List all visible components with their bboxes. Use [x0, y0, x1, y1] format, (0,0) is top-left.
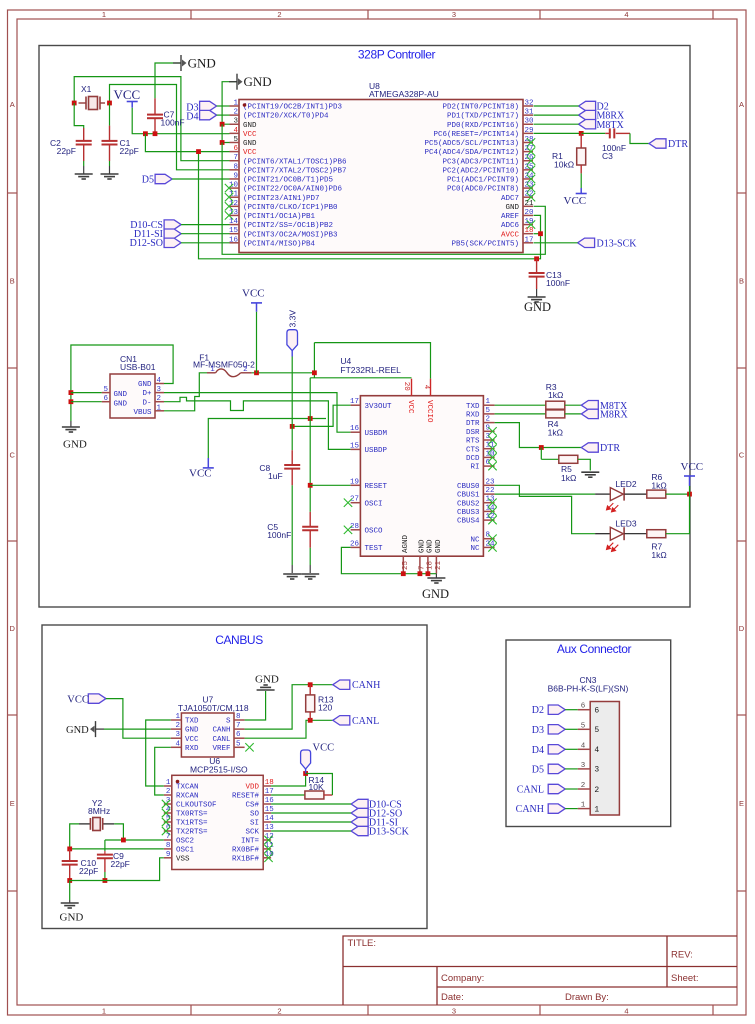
svg-text:4: 4	[233, 127, 238, 135]
svg-text:1uF: 1uF	[268, 471, 283, 481]
U8 pin 30 PD0(RXD/PCINT16)	[523, 123, 533, 125]
U8 pin 1 marker dot	[243, 103, 247, 107]
svg-text:PB5(SCK/PCINT5): PB5(SCK/PCINT5)	[451, 240, 519, 248]
wire RESET to U4 pin19	[310, 484, 350, 486]
power symbol VCC below CN1	[203, 467, 214, 469]
svg-text:10K: 10K	[309, 782, 324, 792]
wire CN1 pin6 to gnd rail	[71, 401, 102, 403]
U6 pin 9 VSS	[164, 857, 172, 859]
svg-text:5: 5	[486, 407, 491, 415]
node DTR junction	[539, 445, 544, 450]
svg-text:16: 16	[350, 425, 360, 433]
svg-text:D3: D3	[532, 725, 544, 736]
node CANH junction R13	[308, 682, 313, 687]
U7 pin 7 CANH	[234, 728, 245, 730]
ground under C1	[101, 174, 119, 179]
net flag D10-CS (CANBUS)	[351, 799, 368, 808]
svg-text:GND: GND	[524, 300, 551, 314]
svg-text:3.3V: 3.3V	[287, 310, 297, 328]
svg-text:15: 15	[229, 227, 239, 235]
U4 pin 12 CBUS4	[483, 519, 494, 521]
wire M8TX to U8 pin30	[534, 123, 579, 125]
svg-text:3: 3	[581, 762, 586, 770]
wire R4 to M8RX flag	[565, 413, 582, 415]
U8 pin 4 VCC	[230, 132, 240, 134]
ground above U7 (inverted earth)	[257, 685, 275, 690]
node GND pin3 junction	[220, 122, 225, 127]
U8 pin 10 (PCINT22/OC0A/AIN0)PD6	[230, 187, 240, 189]
U4 pin 13 CBUS2	[483, 502, 494, 504]
wire U7 TXD to U6 TXCAN	[146, 720, 171, 786]
net flag D5 (Aux)	[548, 764, 565, 773]
wire R6 to VCC node	[666, 493, 690, 495]
svg-text:8: 8	[236, 713, 241, 721]
svg-text:C: C	[739, 450, 745, 459]
node VCC CANBUS junction	[303, 771, 308, 776]
wire RESET to C3	[581, 132, 605, 134]
svg-text:USBDM: USBDM	[365, 430, 388, 438]
svg-text:GND: GND	[435, 539, 443, 553]
svg-text:2: 2	[486, 416, 491, 424]
net flag CANH (CANBUS)	[333, 680, 350, 689]
svg-text:(PCINT22/OC0A/AIN0)PD6: (PCINT22/OC0A/AIN0)PD6	[243, 186, 343, 194]
svg-text:3: 3	[157, 386, 162, 394]
CN1 pin 4 GND	[155, 383, 164, 385]
svg-text:C: C	[9, 450, 15, 459]
wire C2 to ground	[83, 161, 85, 166]
wire DTR to R5	[540, 448, 542, 460]
svg-text:19: 19	[350, 478, 359, 486]
wire ground bus to earth	[435, 574, 437, 578]
node OSC1 C10 junction	[67, 847, 72, 852]
svg-text:SO: SO	[250, 811, 260, 819]
svg-text:30: 30	[525, 118, 535, 126]
wire VCC trunk under U8	[199, 152, 541, 259]
svg-text:22pF: 22pF	[79, 866, 98, 876]
connector CN3 body	[590, 702, 619, 816]
svg-text:GND: GND	[114, 391, 128, 399]
wire VCC to U4 VCC pin20	[310, 377, 411, 379]
svg-text:GND: GND	[244, 74, 272, 89]
U6 pin 17 RESET#	[263, 794, 271, 796]
wire D5 to CN3 pin 3	[565, 768, 578, 770]
svg-text:PC6(RESET=/PCINT14): PC6(RESET=/PCINT14)	[433, 131, 519, 139]
svg-text:100nF: 100nF	[161, 118, 185, 128]
svg-text:26: 26	[350, 540, 360, 548]
svg-text:PC5(ADC5/SCL/PCINT13): PC5(ADC5/SCL/PCINT13)	[424, 140, 519, 148]
svg-text:(PCINT6/XTAL1/TOSC1)PB6: (PCINT6/XTAL1/TOSC1)PB6	[243, 158, 347, 166]
U4 pin 11 CTS	[483, 448, 494, 450]
wire CANH from U7 pin7	[245, 685, 333, 729]
svg-text:5: 5	[103, 386, 108, 394]
net flag D12-SO (CANBUS)	[351, 808, 368, 817]
U6 pin 8 OSC1	[164, 848, 172, 850]
svg-text:7: 7	[419, 565, 427, 570]
svg-text:PD1(TXD/PCINT17): PD1(TXD/PCINT17)	[447, 113, 519, 121]
svg-text:VCC: VCC	[243, 149, 257, 157]
U6 pin 16 CS#	[263, 803, 271, 805]
node RESET junction	[579, 131, 584, 136]
svg-text:VBUS: VBUS	[133, 409, 152, 417]
svg-text:7: 7	[166, 833, 171, 841]
svg-text:(PCINT4/MISO)PB4: (PCINT4/MISO)PB4	[243, 240, 316, 248]
svg-text:MCP2515-I/SO: MCP2515-I/SO	[190, 765, 248, 775]
frame row ticks left	[8, 192, 18, 194]
node GND18 junction	[426, 571, 431, 576]
svg-text:PC1(ADC1/PCINT9): PC1(ADC1/PCINT9)	[447, 177, 519, 185]
wire RESET from U8 pin29	[534, 132, 582, 134]
wire D2 to CN3 pin 6	[565, 709, 578, 711]
svg-text:CANH: CANH	[352, 680, 380, 691]
U8 pin 2 (PCINT20/XCK/T0)PD4	[230, 114, 240, 116]
net flag D12-SO	[164, 238, 181, 247]
op-amp U7 body TJA1050T	[181, 713, 234, 757]
svg-text:6: 6	[594, 707, 599, 716]
wire D5 to U8 pin9	[172, 178, 229, 180]
wire R7 to VCC node	[666, 494, 690, 534]
net flag CANL (Aux)	[548, 784, 565, 793]
wire C9 to gnd bus	[104, 872, 106, 881]
svg-text:RXD: RXD	[185, 745, 199, 753]
wire RXD to R4	[495, 413, 546, 415]
wire VBUS to fuse	[164, 373, 207, 411]
CN1 pin 5 GND	[102, 392, 110, 394]
svg-text:M8RX: M8RX	[600, 410, 629, 421]
svg-text:9: 9	[233, 172, 238, 180]
net flag D13-SCK (CANBUS)	[351, 826, 368, 835]
svg-text:CLKOUTSOF: CLKOUTSOF	[176, 802, 217, 810]
svg-text:4: 4	[581, 742, 586, 750]
svg-text:120: 120	[318, 703, 332, 713]
node RESET rail junction	[308, 416, 313, 421]
svg-text:21: 21	[435, 560, 443, 570]
svg-text:16: 16	[229, 236, 239, 244]
power symbol VCC under R1	[576, 193, 587, 195]
svg-text:B: B	[10, 276, 15, 285]
wire C8 to ground	[291, 485, 293, 565]
ground under C8	[283, 574, 301, 579]
node VCC trunk junction at pin6 wire	[196, 149, 201, 154]
wire crystal left to C2	[74, 103, 84, 128]
svg-text:OSC1: OSC1	[176, 847, 195, 855]
svg-text:1: 1	[102, 1006, 106, 1015]
U4 pin 28 OSCO no-connect X	[344, 526, 352, 534]
svg-text:S: S	[226, 718, 231, 726]
svg-text:E: E	[739, 799, 744, 808]
svg-text:(PCINT3/OC2A/MOSI)PB3: (PCINT3/OC2A/MOSI)PB3	[243, 231, 338, 239]
svg-text:14: 14	[229, 218, 239, 226]
wire fuse output VCC	[252, 372, 315, 374]
wire C1 to ground	[109, 161, 111, 166]
svg-text:PD2(INT0/PCINT18): PD2(INT0/PCINT18)	[442, 104, 519, 112]
CN1 pin 1 VBUS	[155, 410, 164, 412]
svg-text:7: 7	[236, 722, 241, 730]
svg-text:GND: GND	[419, 539, 427, 553]
U4 pin 27 OSCI	[351, 502, 361, 504]
svg-text:3V3OUT: 3V3OUT	[365, 403, 393, 411]
wire SI to D11-SI	[271, 821, 351, 823]
U4 pin 20 VCC (top)	[411, 379, 413, 396]
svg-text:LED2: LED2	[615, 479, 637, 489]
svg-text:1kΩ: 1kΩ	[561, 473, 576, 483]
wire D4 to CN3 pin 4	[565, 748, 578, 750]
U8 pin 16 (PCINT4/MISO)PB4	[230, 242, 240, 244]
wire GND flag to U7 pin2	[96, 728, 105, 730]
svg-text:5: 5	[581, 722, 586, 730]
svg-text:(PCINT2/SS=/OC1B)PB2: (PCINT2/SS=/OC1B)PB2	[243, 222, 333, 230]
wire R3 to M8TX flag	[565, 404, 582, 406]
U8 pin 12 (PCINT0/CLKO/ICP1)PB0	[230, 205, 240, 207]
svg-text:RXCAN: RXCAN	[176, 793, 199, 801]
svg-text:AREF: AREF	[501, 213, 519, 221]
svg-text:LED3: LED3	[615, 519, 637, 529]
svg-text:1: 1	[233, 100, 238, 108]
svg-text:(PCINT20/XCK/T0)PD4: (PCINT20/XCK/T0)PD4	[243, 113, 329, 121]
svg-text:3: 3	[175, 731, 180, 739]
node GND7 junction	[418, 571, 423, 576]
CN3 pin 4 net D4	[578, 748, 591, 750]
resistor R1	[580, 133, 582, 148]
frame column ticks top	[190, 10, 192, 19]
svg-text:GND: GND	[60, 912, 84, 924]
node CANL junction R13	[308, 718, 313, 723]
resistor R7	[647, 530, 666, 538]
svg-text:2: 2	[233, 109, 238, 117]
CN3 pin 6 net D2	[578, 709, 591, 711]
capacitor C1	[109, 126, 111, 141]
U4 pin 17 3V3OUT	[351, 404, 361, 406]
svg-text:8: 8	[233, 163, 238, 171]
capacitor C13	[536, 259, 538, 273]
wire VCC to RESET rail	[208, 419, 326, 459]
svg-text:1: 1	[166, 779, 171, 787]
net flag D11-SI	[164, 229, 181, 238]
node C10 gnd junction	[67, 878, 72, 883]
CN3 pin 2 net CANL	[578, 788, 591, 790]
wire CANL to CN3 pin 2	[565, 788, 578, 790]
title block vertical divider REV column	[666, 936, 668, 987]
capacitor C5	[309, 512, 311, 527]
net flag D11-SI (CANBUS)	[351, 817, 368, 826]
U7 pin 5 VREF	[234, 746, 245, 748]
svg-text:DTR: DTR	[668, 139, 688, 150]
U4 pin 9 DSR	[483, 430, 494, 432]
svg-text:22: 22	[486, 487, 495, 495]
wire OSC1 to crystal Y2 left	[70, 848, 164, 850]
svg-text:6: 6	[236, 731, 241, 739]
svg-text:22pF: 22pF	[57, 146, 76, 156]
svg-text:31: 31	[525, 109, 535, 117]
U8 pin 3 GND	[230, 123, 240, 125]
wire TXD to R3	[495, 404, 546, 406]
svg-text:TXD: TXD	[185, 718, 199, 726]
wire AVCC to VCC riser	[534, 233, 541, 235]
node crystal riser junction	[121, 838, 126, 843]
svg-text:100nF: 100nF	[267, 530, 291, 540]
title block vertical divider Company column	[436, 967, 438, 1006]
svg-text:GND: GND	[188, 55, 216, 70]
supply flag VCC (above R14)	[301, 750, 311, 769]
svg-text:NC: NC	[470, 536, 480, 544]
U6 pin 18 VDD	[263, 785, 271, 787]
svg-text:25: 25	[402, 560, 410, 570]
CN3 pin 5 net D3	[578, 728, 591, 730]
U8 pin 21 GND	[523, 205, 533, 207]
node AVCC junction	[538, 231, 543, 236]
ground under R5	[581, 472, 599, 477]
svg-text:TJA1050T/CM,118: TJA1050T/CM,118	[178, 703, 249, 713]
svg-text:CBUS0: CBUS0	[457, 483, 480, 491]
U4 pin 23 CBUS0	[483, 484, 494, 486]
net flag D5	[155, 174, 172, 183]
wire gnd rail to earth	[70, 421, 72, 427]
resistor R13	[309, 685, 311, 695]
wire VCC symbol down to fuse line	[256, 312, 258, 373]
svg-text:VCC: VCC	[243, 131, 257, 139]
LED3	[595, 533, 610, 535]
CN1 pin 6 GND	[102, 401, 110, 403]
wire DTR from U4 pin2	[495, 423, 582, 448]
svg-text:D-: D-	[142, 399, 151, 407]
U4 pin 3 RTS	[483, 439, 494, 441]
net flag M8TX (FT232 side)	[581, 401, 598, 410]
U7 pin 4 RXD	[171, 746, 182, 748]
wire D4 to U8 pin2	[217, 114, 230, 116]
wire VCC to U8 pin6	[145, 134, 229, 152]
wire D3 to CN3 pin 5	[565, 728, 578, 730]
U7 pin 6 CANL	[234, 737, 245, 739]
CN3 pin 3 net D5	[578, 768, 591, 770]
svg-text:2: 2	[594, 786, 599, 795]
wire RESET# to R14	[271, 794, 305, 796]
svg-text:20: 20	[525, 209, 535, 217]
svg-text:TXD: TXD	[466, 403, 480, 411]
U6 pin 11 RX0BF#	[263, 848, 271, 850]
net flag M8RX	[579, 110, 596, 119]
svg-text:1: 1	[486, 398, 491, 406]
U6 pin 4 TX0RTS=	[164, 812, 172, 814]
svg-text:32: 32	[525, 100, 534, 108]
node fuse VCC junction	[254, 370, 259, 375]
svg-text:(PCINT0/CLKO/ICP1)PB0: (PCINT0/CLKO/ICP1)PB0	[243, 204, 338, 212]
title block divider under Company row	[437, 986, 737, 988]
U4 pin 15 USBDP	[351, 448, 361, 450]
wire TEST to ground bus	[341, 547, 436, 573]
net flag D4 (Aux)	[548, 745, 565, 754]
net flag D2	[579, 101, 596, 110]
U6 pin 10 RX1BF#	[263, 857, 271, 859]
net flag D3 (Aux)	[548, 725, 565, 734]
svg-text:5: 5	[233, 136, 238, 144]
U4 pin 14 CBUS3	[483, 510, 494, 512]
svg-text:CBUS4: CBUS4	[457, 518, 480, 526]
svg-text:11: 11	[229, 191, 239, 199]
svg-text:2: 2	[581, 782, 586, 790]
wire CBUS0 to LED3	[495, 485, 595, 533]
node C7 bottom junction	[153, 131, 158, 136]
svg-text:VSS: VSS	[176, 855, 190, 863]
capacitor C8	[291, 450, 293, 465]
svg-text:D13-SCK: D13-SCK	[369, 827, 410, 838]
node CN1 pin5 junction	[69, 390, 74, 395]
supply flag VCC (CANBUS left)	[88, 694, 106, 703]
svg-text:RI: RI	[470, 464, 479, 472]
svg-text:PC4(ADC4/SDA/PCINT12): PC4(ADC4/SDA/PCINT12)	[424, 149, 519, 157]
svg-text:100nF: 100nF	[546, 278, 570, 288]
svg-text:TX1RTS=: TX1RTS=	[176, 820, 208, 828]
svg-text:18: 18	[427, 561, 435, 570]
crystal Y2	[79, 818, 114, 831]
svg-text:B: B	[739, 276, 744, 285]
wire crystal right to C1	[109, 103, 111, 126]
node crystal left junction	[72, 101, 77, 106]
svg-text:RESET#: RESET#	[232, 793, 260, 801]
svg-text:D5: D5	[142, 175, 154, 186]
svg-text:D5: D5	[532, 764, 544, 775]
ground flag GND (CANBUS left)	[90, 721, 96, 737]
svg-text:VCC: VCC	[67, 694, 89, 705]
wire R14 to VCC node	[324, 794, 333, 796]
svg-text:PC2(ADC2/PCINT10): PC2(ADC2/PCINT10)	[442, 167, 519, 175]
wire D11-SI to U8 pin15	[181, 233, 229, 235]
svg-text:D+: D+	[142, 390, 152, 398]
U4 pin 16 USBDM	[351, 431, 361, 433]
svg-text:NC: NC	[470, 545, 480, 553]
U4 pin 22 CBUS1	[483, 493, 494, 495]
svg-text:VCC: VCC	[313, 743, 335, 754]
U4 pin 19 RESET	[351, 484, 361, 486]
svg-text:1: 1	[102, 10, 106, 19]
svg-text:12: 12	[229, 200, 238, 208]
svg-text:(PCINT21/OC0B/T1)PD5: (PCINT21/OC0B/T1)PD5	[243, 177, 334, 185]
svg-text:ADC6: ADC6	[501, 222, 520, 230]
svg-text:REV:: REV:	[671, 950, 693, 961]
svg-text:2: 2	[243, 366, 248, 374]
U7 pin5 VREF no-connect X	[245, 743, 253, 751]
U8 pin 32 PD2(INT0/PCINT18)	[523, 105, 533, 107]
U4 pin 28 OSCO	[351, 529, 361, 531]
U8 pin 31 PD1(TXD/PCINT17)	[523, 114, 533, 116]
U8 pin 27 PC4(ADC4/SDA/PCINT12)	[523, 151, 533, 153]
svg-text:4: 4	[422, 385, 430, 390]
svg-text:2: 2	[157, 395, 162, 403]
resistor R6	[647, 490, 666, 498]
net flag D3	[200, 101, 217, 110]
U8 pin 15 (PCINT3/OC2A/MOSI)PB3	[230, 233, 240, 235]
ground under C13	[528, 297, 546, 302]
svg-text:1: 1	[581, 802, 586, 810]
LED2	[595, 493, 610, 495]
svg-text:20: 20	[402, 382, 410, 392]
wire U7 S pin to ground	[245, 691, 266, 720]
capacitor C3 100nF	[605, 132, 610, 134]
U8 pin 20 AREF	[523, 214, 533, 216]
U6 pin 6 TX2RTS=	[164, 830, 172, 832]
svg-text:(PCINT23/AIN1)PD7: (PCINT23/AIN1)PD7	[243, 195, 320, 203]
svg-text:CANBUS: CANBUS	[215, 633, 263, 647]
wire gnd bus drop to earth	[69, 881, 71, 901]
section box CANBUS	[42, 625, 427, 929]
svg-text:DTR: DTR	[466, 420, 480, 428]
svg-text:RTS: RTS	[466, 438, 480, 446]
resistor R4	[546, 410, 565, 418]
U4 pin 8 NC	[483, 538, 494, 540]
wire VDD to VCC flag	[271, 774, 306, 787]
svg-text:21: 21	[525, 200, 535, 208]
U6 pin 13 SCK	[263, 830, 271, 832]
U4 pin 5 RXD	[483, 413, 494, 415]
U4 pin 25 AGND (bottom)	[402, 556, 404, 574]
